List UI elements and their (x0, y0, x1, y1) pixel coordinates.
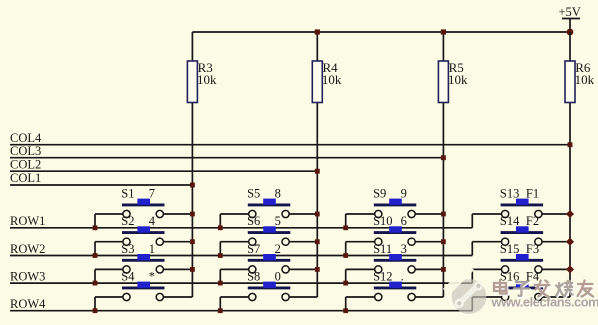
svg-text:COL4: COL4 (10, 131, 42, 145)
svg-text:10k: 10k (197, 72, 217, 87)
svg-text:ROW3: ROW3 (10, 270, 45, 284)
svg-text:S12: S12 (373, 270, 392, 284)
svg-text:9: 9 (401, 187, 407, 201)
svg-text:S9: S9 (373, 187, 386, 201)
svg-text:COL1: COL1 (10, 171, 41, 185)
svg-text:.: . (401, 270, 404, 284)
svg-text:3: 3 (401, 242, 407, 256)
svg-text:ROW2: ROW2 (10, 242, 45, 256)
svg-text:S4: S4 (121, 270, 135, 284)
svg-text:1: 1 (149, 242, 155, 256)
svg-text:S2: S2 (121, 214, 134, 228)
svg-text:S1: S1 (121, 187, 134, 201)
svg-text:+5V: +5V (559, 5, 581, 19)
svg-text:*: * (149, 270, 155, 284)
svg-text:6: 6 (401, 214, 407, 228)
svg-text:F2: F2 (526, 214, 539, 228)
svg-text:S7: S7 (247, 242, 260, 256)
svg-text:10k: 10k (322, 72, 342, 87)
svg-text:2: 2 (275, 242, 281, 256)
svg-text:COL3: COL3 (10, 144, 41, 158)
svg-text:8: 8 (275, 187, 281, 201)
svg-text:S5: S5 (247, 187, 260, 201)
svg-text:4: 4 (149, 214, 156, 228)
svg-text:S10: S10 (373, 214, 392, 228)
svg-text:0: 0 (275, 270, 281, 284)
svg-text:S14: S14 (500, 214, 520, 228)
svg-text:COL2: COL2 (10, 157, 41, 171)
svg-text:F3: F3 (526, 242, 539, 256)
svg-text:10k: 10k (448, 72, 468, 87)
svg-text:S11: S11 (373, 242, 392, 256)
svg-text:www.elecfans.com: www.elecfans.com (491, 294, 598, 309)
svg-text:7: 7 (149, 187, 155, 201)
svg-text:S13: S13 (500, 187, 519, 201)
svg-text:S15: S15 (500, 242, 519, 256)
svg-text:5: 5 (275, 214, 281, 228)
svg-text:S8: S8 (247, 270, 260, 284)
svg-text:S6: S6 (247, 214, 260, 228)
svg-text:S3: S3 (121, 242, 134, 256)
svg-text:ROW4: ROW4 (10, 297, 46, 311)
svg-text:10k: 10k (575, 72, 595, 87)
svg-text:F1: F1 (526, 187, 539, 201)
svg-text:ROW1: ROW1 (10, 214, 45, 228)
